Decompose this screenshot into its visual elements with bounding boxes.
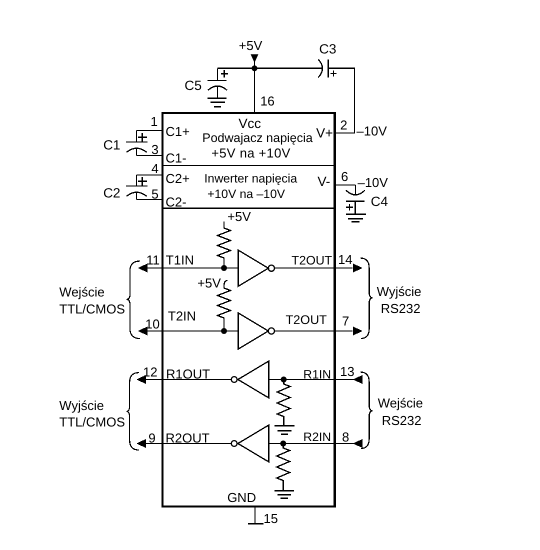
svg-text:2: 2 xyxy=(340,117,347,132)
svg-text:R1IN: R1IN xyxy=(303,367,331,381)
node dot T2IN xyxy=(221,328,227,334)
svg-text:C1+: C1+ xyxy=(166,124,190,139)
capacitor C4 xyxy=(346,185,365,214)
text Wejscie TTL/CMOS xyxy=(59,284,104,299)
svg-text:16: 16 xyxy=(260,93,274,108)
pin 9 arrow xyxy=(138,440,146,447)
pin 16 label xyxy=(260,93,274,108)
net -10V at pin 2 xyxy=(357,124,388,139)
pin 16 wire xyxy=(254,68,256,112)
node dot R2IN xyxy=(280,441,286,447)
internal +5V label T2 xyxy=(197,276,221,291)
resistor pull-down R1 xyxy=(277,382,290,426)
brace TTL/CMOS inputs xyxy=(127,261,140,338)
svg-text:+5V: +5V xyxy=(197,276,221,291)
svg-text:–10V: –10V xyxy=(358,175,389,190)
text +10V na -10V xyxy=(207,187,285,201)
svg-text:Wyjście: Wyjście xyxy=(377,284,422,299)
brace RS232 inputs xyxy=(360,372,372,448)
wire pin 10 to T2 input xyxy=(146,330,238,332)
svg-text:+5V na +10V: +5V na +10V xyxy=(211,146,290,161)
text Wyjscie TTL/CMOS xyxy=(59,398,104,413)
T2IN label xyxy=(168,308,196,323)
svg-text:+5V: +5V xyxy=(227,209,251,224)
GND label xyxy=(227,490,256,505)
svg-text:T2IN: T2IN xyxy=(168,308,196,323)
R1 output bubble xyxy=(231,377,237,383)
text Podwajacz napiecia xyxy=(202,131,313,145)
text Wyjscie RS232 xyxy=(377,284,422,299)
brace RS232 outputs xyxy=(360,258,372,338)
pin 12 arrow xyxy=(138,376,146,383)
IC U1 body xyxy=(163,113,335,507)
net -10V at pin 6 xyxy=(358,175,389,190)
C1+ label xyxy=(166,124,190,139)
svg-text:TTL/CMOS: TTL/CMOS xyxy=(59,302,125,317)
svg-text:13: 13 xyxy=(340,364,354,379)
svg-text:8: 8 xyxy=(342,429,349,444)
T2 output bubble xyxy=(268,328,274,334)
pin 6 label xyxy=(341,169,348,184)
svg-text:11: 11 xyxy=(146,252,160,267)
svg-text:Wyjście: Wyjście xyxy=(59,398,104,413)
svg-text:Wejście: Wejście xyxy=(59,284,104,299)
pin 5 stub xyxy=(137,199,164,201)
pin 13 arrow xyxy=(354,376,362,383)
pin 15 wire xyxy=(254,507,256,524)
svg-text:C2+: C2+ xyxy=(166,171,190,186)
C4 label xyxy=(371,194,389,209)
wire pin 11 to T1 input xyxy=(146,267,238,269)
svg-text:T2OUT: T2OUT xyxy=(292,254,333,268)
svg-text:C2: C2 xyxy=(103,186,120,201)
pin 11 arrow xyxy=(139,264,147,271)
pin 7 label xyxy=(342,313,349,328)
+5V supply label xyxy=(239,38,263,53)
svg-text:1: 1 xyxy=(150,114,157,129)
op-amp buffer T2 xyxy=(238,313,268,349)
svg-text:TTL/CMOS: TTL/CMOS xyxy=(59,415,125,430)
svg-text:6: 6 xyxy=(341,169,348,184)
C1- label xyxy=(166,150,187,165)
capacitor C1 xyxy=(126,131,148,156)
svg-text:Wejście: Wejście xyxy=(378,395,423,410)
svg-text:C4: C4 xyxy=(371,194,389,209)
R1OUT label xyxy=(166,367,210,382)
pin 3 stub xyxy=(137,155,164,157)
section divider 1 xyxy=(163,165,335,167)
pin 9 label xyxy=(148,431,155,446)
wire R1 output to pin 12 xyxy=(145,379,232,381)
svg-text:Vcc: Vcc xyxy=(239,116,262,131)
op-amp buffer R2 xyxy=(238,425,269,462)
V+ label xyxy=(316,126,333,141)
svg-text:Inwerter napięcia: Inwerter napięcia xyxy=(204,172,297,186)
C5 label xyxy=(185,78,202,93)
svg-text:C2-: C2- xyxy=(166,195,187,210)
brace TTL/CMOS outputs xyxy=(127,373,139,450)
pin 10 arrow xyxy=(139,327,147,334)
pin 11 label xyxy=(146,252,160,267)
svg-text:T1IN: T1IN xyxy=(166,252,194,267)
T2OUT label at pin 14 xyxy=(292,254,333,268)
node +5V junction dot xyxy=(252,65,258,71)
svg-text:+5V: +5V xyxy=(239,38,263,53)
svg-text:3: 3 xyxy=(151,142,158,157)
pin 4 label xyxy=(151,161,158,176)
pin 10 label xyxy=(145,316,159,331)
C3 label xyxy=(319,41,336,56)
pin 4 stub xyxy=(137,174,164,176)
R1IN label xyxy=(303,367,331,381)
wire T1 output to pin 14 xyxy=(275,267,353,269)
R2 output bubble xyxy=(231,441,237,447)
pin 8 label xyxy=(342,429,349,444)
svg-text:C5: C5 xyxy=(185,78,202,93)
ground below R2 resistor xyxy=(274,491,294,499)
svg-text:GND: GND xyxy=(227,490,256,505)
V- label xyxy=(318,174,331,189)
svg-text:15: 15 xyxy=(264,511,278,526)
svg-text:T2OUT: T2OUT xyxy=(286,313,328,327)
section divider 2 xyxy=(163,207,335,209)
svg-text:C3: C3 xyxy=(319,41,336,56)
pin 8 arrow xyxy=(354,440,362,447)
+5V supply arrow xyxy=(251,55,257,66)
svg-text:R2IN: R2IN xyxy=(303,430,331,444)
T1IN label xyxy=(166,252,194,267)
wire R1 input to pin 13 xyxy=(269,379,354,381)
pin 14 label xyxy=(338,252,352,267)
wire +5V node to C3 xyxy=(255,67,323,69)
R2IN label xyxy=(303,430,331,444)
svg-text:5: 5 xyxy=(151,187,158,202)
R2OUT label xyxy=(166,431,210,446)
Vcc label xyxy=(239,116,262,131)
pin 15 label xyxy=(264,511,278,526)
node dot T1IN xyxy=(221,265,227,271)
pin 2 label xyxy=(340,117,347,132)
C2 label xyxy=(103,186,120,201)
T1 output bubble xyxy=(268,265,274,271)
ground below C5 xyxy=(208,98,227,107)
wire T2 output to pin 7 xyxy=(275,330,353,332)
capacitor C5 xyxy=(208,68,228,98)
svg-text:+10V na –10V: +10V na –10V xyxy=(207,187,285,201)
svg-text:C1-: C1- xyxy=(166,150,187,165)
resistor pull-up T1 xyxy=(218,222,231,269)
svg-text:14: 14 xyxy=(338,252,352,267)
ground below R1 resistor xyxy=(275,426,295,435)
node dot R1IN xyxy=(281,377,287,383)
pin 1 stub xyxy=(137,130,164,132)
capacitor C2 xyxy=(126,175,148,200)
svg-text:V-: V- xyxy=(318,174,331,189)
pin 5 label xyxy=(151,187,158,202)
op-amp buffer R1 xyxy=(238,361,269,398)
svg-text:RS232: RS232 xyxy=(381,301,421,316)
pin 3 label xyxy=(151,142,158,157)
pin 12 label xyxy=(143,364,157,379)
op-amp buffer T1 xyxy=(238,250,268,286)
wire R2 output to pin 9 xyxy=(145,443,232,445)
T2OUT label at pin 7 xyxy=(286,313,328,327)
pin 6 stub xyxy=(335,184,356,186)
pin 13 label xyxy=(340,364,354,379)
ground below C4 xyxy=(346,214,366,222)
svg-text:Podwajacz napięcia: Podwajacz napięcia xyxy=(202,131,313,145)
svg-text:C1: C1 xyxy=(103,138,120,153)
wire C3 to pin 2 xyxy=(328,68,354,133)
resistor pull-down R2 xyxy=(277,446,290,491)
wire +5V node to C5 xyxy=(218,67,255,69)
pin 14 arrow xyxy=(354,264,362,271)
svg-text:V+: V+ xyxy=(316,126,333,141)
svg-text:4: 4 xyxy=(151,161,158,176)
pin 1 label xyxy=(150,114,157,129)
capacitor C3 xyxy=(318,59,336,77)
text +5V na +10V xyxy=(211,146,290,161)
svg-text:–10V: –10V xyxy=(357,124,388,139)
resistor pull-up T2 xyxy=(218,281,231,332)
pin 7 arrow xyxy=(354,327,362,334)
wire R2 input to pin 8 xyxy=(269,443,354,445)
internal +5V label T1 xyxy=(227,209,251,224)
text Wejscie RS232 xyxy=(378,395,423,410)
pin 15 ground bar xyxy=(248,523,264,525)
C1 label xyxy=(103,138,120,153)
text Inwerter napiecia xyxy=(204,172,297,186)
C2+ label xyxy=(166,171,190,186)
svg-text:RS232: RS232 xyxy=(382,413,422,428)
C2- label xyxy=(166,195,187,210)
svg-text:7: 7 xyxy=(342,313,349,328)
